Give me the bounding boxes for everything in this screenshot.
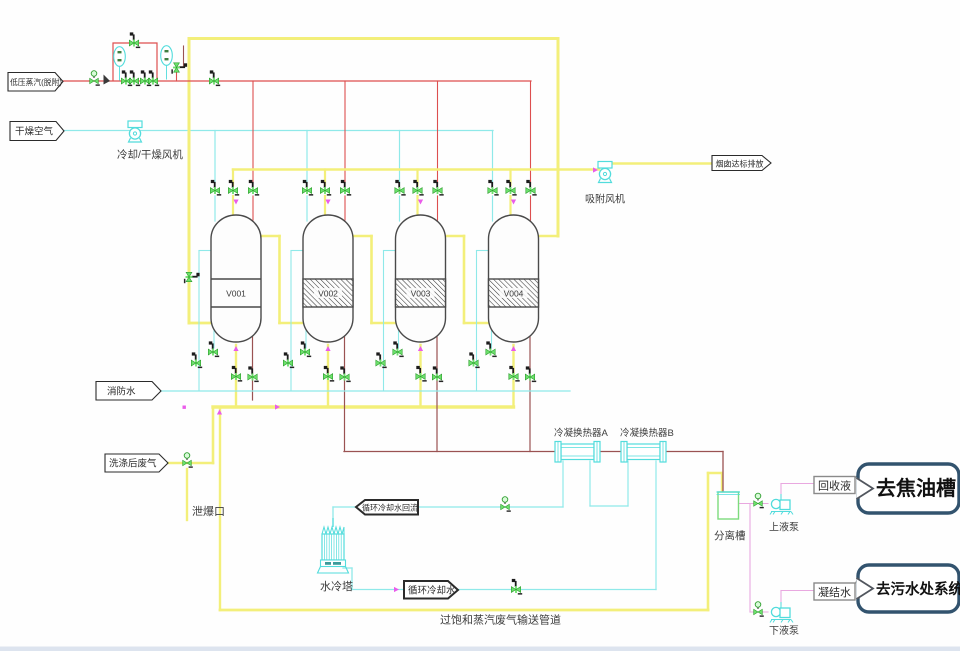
wire yellow riser left bbox=[188, 39, 191, 324]
node manifold flow arrow bbox=[275, 404, 280, 409]
wire yellow fan discharge to stack bbox=[611, 162, 712, 165]
valve steam inlet V004 bbox=[526, 180, 537, 196]
wire yellow stub above V003 bbox=[416, 170, 418, 186]
wire yellow jumper drop V002-V003 bbox=[370, 236, 373, 323]
wire condensate drop V003 bbox=[436, 336, 438, 452]
valve steam bypass bbox=[129, 32, 140, 48]
node riser flow arrow bbox=[217, 410, 222, 415]
wire tank lower outlet drop bbox=[749, 504, 751, 613]
wire fire water entry V002 bbox=[291, 250, 304, 252]
wire fire water riser V003 bbox=[383, 251, 385, 392]
wire air stub to dome V003 bbox=[399, 196, 401, 221]
instrument PI1 bbox=[114, 47, 126, 67]
wire yellow outlet V003 bbox=[446, 235, 465, 238]
wire yellow inlet V002 bbox=[280, 322, 304, 325]
wire yellow bottom drop V004 bbox=[512, 345, 514, 407]
wire fire water entry V003 bbox=[384, 250, 397, 252]
svg-text:水冷塔: 水冷塔 bbox=[320, 580, 353, 593]
wire yellow bottom drop V003 bbox=[419, 345, 421, 407]
valve air inlet V004 bbox=[488, 180, 499, 196]
bottom border strip bbox=[0, 647, 960, 651]
wire tank to upper pump suction bbox=[738, 503, 768, 505]
node drain arrow V003 bbox=[418, 346, 423, 351]
pump lower liquid bbox=[770, 602, 793, 623]
valve bottom gas V003 bbox=[416, 366, 427, 382]
wire yellow bottom drop V001 bbox=[235, 345, 237, 407]
node fan inlet arrow bbox=[593, 167, 598, 172]
fan cooling-drying blower bbox=[128, 121, 142, 142]
wire upper pump discharge riser bbox=[780, 484, 782, 499]
wire relief vent riser bbox=[183, 46, 185, 67]
node outlet stack discharge bbox=[712, 156, 771, 171]
svg-text:低压蒸汽(脱附): 低压蒸汽(脱附) bbox=[10, 77, 62, 87]
wire yellow recycle riser left bbox=[219, 409, 221, 610]
heat exchanger condenser B bbox=[621, 442, 666, 463]
valve steam header bbox=[209, 70, 220, 86]
wire yellow inlet V004 bbox=[464, 322, 489, 325]
node condensate water tag bbox=[814, 583, 855, 600]
wire yellow stub above V001 bbox=[232, 170, 234, 186]
wire air stub to dome V001 bbox=[214, 196, 216, 221]
wire yellow stub to dome V002 bbox=[324, 196, 326, 216]
node drain arrow V002 bbox=[325, 346, 330, 351]
wire yellow stub to dome V004 bbox=[509, 196, 511, 216]
wire drain stub V001 bbox=[213, 328, 215, 348]
wire yellow inlet V003 bbox=[372, 322, 396, 325]
valve fire water V004 bbox=[469, 352, 480, 368]
pump upper liquid bbox=[770, 494, 793, 515]
svg-text:下液泵: 下液泵 bbox=[769, 624, 799, 637]
wire yellow jumper drop V003-V004 bbox=[463, 236, 466, 323]
node cooling water return bbox=[356, 500, 418, 515]
svg-text:V004: V004 bbox=[504, 289, 524, 299]
wire fire water riser V002 bbox=[290, 251, 292, 392]
svg-text:上液泵: 上液泵 bbox=[769, 521, 799, 534]
svg-text:冷凝换热器A: 冷凝换热器A bbox=[554, 427, 609, 439]
valve steam inlet V001 bbox=[248, 180, 259, 196]
valve drain aux V001 bbox=[208, 341, 219, 357]
svg-text:冷凝换热器B: 冷凝换热器B bbox=[620, 427, 674, 439]
wire air drop V001 bbox=[214, 131, 216, 186]
node feed arrow V002 bbox=[325, 200, 330, 205]
node inlet fire water bbox=[96, 382, 161, 401]
wire explosion vent line bbox=[186, 469, 188, 520]
wire fire water riser V001 bbox=[198, 251, 200, 392]
valve air inlet V003 bbox=[395, 180, 406, 196]
svg-text:去焦油槽: 去焦油槽 bbox=[876, 476, 956, 500]
valve steam inlet V003 bbox=[433, 180, 444, 196]
wire fire water entry V001 bbox=[199, 250, 212, 252]
valve condensate V004 bbox=[525, 366, 536, 382]
wire yellow jumper drop V001-V002 bbox=[278, 236, 281, 323]
wire cooling return header bbox=[333, 506, 563, 508]
wire yellow outlet V001 bbox=[261, 235, 280, 238]
cooling tower bbox=[318, 518, 349, 573]
valve steam inlet V002 bbox=[340, 180, 351, 196]
valve steam control bbox=[129, 70, 140, 86]
wire condensate water line bbox=[781, 590, 814, 592]
svg-text:干燥空气: 干燥空气 bbox=[15, 126, 54, 138]
wire condensate drop V004 bbox=[529, 336, 531, 452]
node destination tar tank bbox=[858, 464, 959, 513]
svg-text:烟囱达标排放: 烟囱达标排放 bbox=[716, 159, 764, 169]
valve vessel1 inlet bbox=[184, 272, 200, 283]
valve steam relief bbox=[171, 63, 187, 74]
wire cooling supply header bbox=[352, 589, 656, 591]
wire yellow drop to fan line bbox=[557, 39, 560, 237]
vessel V001 bbox=[211, 215, 261, 342]
wire tag to tar tank connector bbox=[855, 470, 862, 478]
svg-text:泄爆口: 泄爆口 bbox=[192, 504, 225, 518]
valve condensate V002 bbox=[340, 366, 351, 382]
wire steam stub to dome V002 bbox=[344, 196, 346, 220]
wire yellow fan suction header bbox=[233, 168, 599, 171]
fan adsorption blower bbox=[598, 162, 612, 183]
wire air drop V003 bbox=[399, 131, 401, 186]
wire yellow recycle riser right bbox=[707, 473, 710, 610]
valve condensate V001 bbox=[248, 366, 259, 382]
svg-text:过饱和蒸汽废气输送管道: 过饱和蒸汽废气输送管道 bbox=[440, 613, 561, 627]
node cooling supply arrow bbox=[394, 587, 399, 592]
valve steam strainer bbox=[121, 70, 132, 86]
wire lower pump discharge riser bbox=[780, 591, 782, 605]
wire yellow outlet V004 bbox=[539, 235, 559, 238]
valve condensate V003 bbox=[432, 366, 443, 382]
wire waste gas inlet line bbox=[168, 462, 213, 465]
valve waste gas inlet bbox=[183, 453, 193, 468]
node drain arrow V001 bbox=[233, 346, 238, 351]
wire air stub to dome V002 bbox=[306, 196, 308, 221]
vessel V003 bbox=[396, 215, 446, 342]
wire steam main header bbox=[63, 80, 531, 82]
valve fire water V001 bbox=[191, 352, 202, 368]
wire yellow outlet V002 bbox=[353, 235, 372, 238]
wire yellow tank vapor jog bbox=[708, 472, 722, 474]
wire dry air header bbox=[64, 130, 493, 132]
wire fire water header bbox=[161, 390, 570, 392]
wire cooling tower inlet riser bbox=[332, 507, 334, 526]
valve gas outlet V003 bbox=[413, 180, 424, 196]
svg-text:消防水: 消防水 bbox=[107, 386, 136, 398]
valve gas outlet V004 bbox=[506, 180, 517, 196]
wire condensate drop V001 bbox=[252, 336, 254, 400]
wire exchanger B nozzle left bbox=[627, 461, 629, 506]
svg-text:循环冷却水回流: 循环冷却水回流 bbox=[362, 503, 418, 513]
valve cooling supply bbox=[511, 579, 522, 595]
wire yellow bottom manifold bbox=[213, 405, 514, 408]
wire yellow manifold left drop bbox=[212, 407, 215, 463]
valve drain aux V003 bbox=[393, 341, 404, 357]
vessel V002 bbox=[303, 215, 353, 342]
wire lower pump suction bbox=[750, 611, 768, 613]
wire yellow stub to dome V001 bbox=[232, 196, 234, 216]
vessel V004 bbox=[489, 215, 539, 342]
node cooling water supply bbox=[404, 581, 458, 599]
svg-text:分离槽: 分离槽 bbox=[714, 529, 746, 542]
wire tower outlet stub bbox=[343, 567, 352, 569]
wire yellow stub to dome V003 bbox=[416, 196, 418, 216]
wire steam drop V004 bbox=[530, 81, 532, 185]
wire air drop V004 bbox=[492, 131, 494, 186]
node destination waste water system bbox=[858, 565, 959, 612]
node feed arrow V001 bbox=[233, 200, 238, 205]
svg-text:凝结水: 凝结水 bbox=[818, 585, 851, 599]
node inlet washed waste gas bbox=[105, 454, 168, 472]
wire drain stub V003 bbox=[398, 328, 400, 348]
wire air stub to dome V004 bbox=[492, 196, 494, 221]
svg-text:V003: V003 bbox=[411, 289, 431, 299]
wire exchanger B supply riser bbox=[655, 461, 657, 590]
wire exchanger A nozzle right bbox=[589, 461, 591, 506]
svg-text:冷却/干燥风机: 冷却/干燥风机 bbox=[117, 148, 183, 161]
valve upper pump suction bbox=[754, 493, 764, 508]
svg-text:洗涤后废气: 洗涤后废气 bbox=[109, 458, 157, 470]
wire saturated vapor transport line bbox=[220, 609, 708, 612]
node recovered liquid tag bbox=[814, 477, 855, 494]
valve drain aux V002 bbox=[300, 341, 311, 357]
valve steam isolation 2 bbox=[148, 70, 159, 86]
wire condensate drop to separator tank bbox=[722, 452, 724, 492]
wire steam stub to dome V004 bbox=[530, 196, 532, 220]
valve bottom gas V002 bbox=[323, 366, 334, 382]
svg-text:去污水处系统: 去污水处系统 bbox=[876, 580, 960, 598]
node drain dot bbox=[183, 406, 186, 409]
valve cooling return bbox=[501, 497, 511, 512]
wire yellow top header bbox=[189, 37, 558, 40]
node inlet dry air bbox=[10, 122, 64, 141]
wire steam bypass loop bbox=[113, 43, 157, 81]
svg-text:吸附风机: 吸附风机 bbox=[585, 193, 625, 206]
wire condensate collector to exchangers bbox=[344, 451, 723, 453]
svg-text:回收液: 回收液 bbox=[818, 479, 851, 493]
node feed arrow V003 bbox=[418, 200, 423, 205]
valve air inlet V001 bbox=[210, 180, 221, 196]
wire steam stub to dome V001 bbox=[252, 196, 254, 220]
wire fire water riser V004 bbox=[476, 251, 478, 392]
valve gas outlet V001 bbox=[228, 180, 239, 196]
wire condensate drop V002 bbox=[344, 336, 346, 452]
wire yellow inlet V001 bbox=[189, 322, 212, 325]
wire relief stub bbox=[176, 70, 178, 81]
wire yellow bottom drop V002 bbox=[327, 345, 329, 407]
wire yellow stub above V002 bbox=[324, 170, 326, 186]
valve steam control 2 bbox=[140, 70, 151, 86]
wire steam drop V001 bbox=[252, 81, 254, 185]
valve fire water V003 bbox=[376, 352, 387, 368]
wire tower outlet drop bbox=[351, 568, 353, 590]
wire yellow stub above V004 bbox=[509, 170, 511, 186]
node inlet low pressure steam bbox=[8, 73, 63, 92]
wire fire water entry V004 bbox=[477, 250, 490, 252]
wire steam drop V003 bbox=[437, 81, 439, 185]
valve gas outlet V002 bbox=[320, 180, 331, 196]
wire recovered liquid line bbox=[781, 483, 814, 485]
wire yellow tank vapor drop bbox=[721, 473, 723, 491]
valve bottom gas V001 bbox=[231, 366, 242, 382]
valve air inlet V002 bbox=[302, 180, 313, 196]
valve bottom gas V004 bbox=[509, 366, 520, 382]
node feed arrow V004 bbox=[511, 200, 516, 205]
svg-text:循环冷却水: 循环冷却水 bbox=[408, 585, 456, 597]
wire drain stub V002 bbox=[305, 328, 307, 348]
check valve steam bbox=[104, 75, 111, 85]
valve lower pump suction bbox=[754, 602, 764, 617]
wire air drop V002 bbox=[306, 131, 308, 186]
svg-text:V002: V002 bbox=[318, 289, 338, 299]
valve fire water V002 bbox=[283, 352, 294, 368]
wire exchanger A-B crossover bbox=[590, 505, 628, 507]
valve steam isolation 1 bbox=[90, 71, 100, 86]
wire steam stub to dome V003 bbox=[437, 196, 439, 220]
wire relief vent jog bbox=[177, 66, 184, 68]
wire steam drop V002 bbox=[344, 81, 346, 185]
node drain arrow V004 bbox=[511, 346, 516, 351]
instrument TI1 bbox=[161, 46, 173, 66]
heat exchanger condenser A bbox=[555, 442, 600, 463]
separator tank bbox=[717, 492, 741, 519]
wire drain stub V004 bbox=[491, 328, 493, 348]
wire exchanger A nozzle left bbox=[562, 461, 564, 507]
valve drain aux V004 bbox=[486, 341, 497, 357]
svg-text:V001: V001 bbox=[226, 289, 246, 299]
